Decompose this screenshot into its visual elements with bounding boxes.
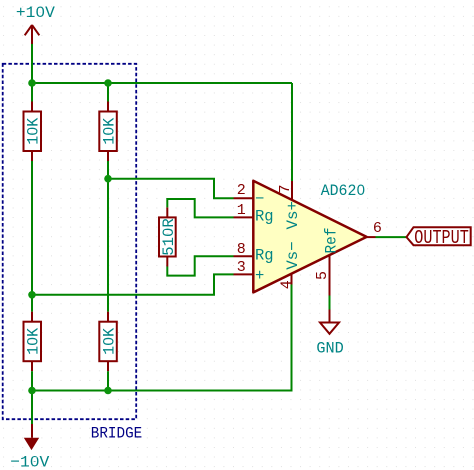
wire left column middle <box>31 161 33 312</box>
svg-text:510R: 510R <box>160 218 178 256</box>
resistor 10K top-right <box>99 102 118 162</box>
svg-text:2: 2 <box>237 182 246 199</box>
pin 4 stub (Vs-) <box>291 274 293 285</box>
svg-text:Ref: Ref <box>323 228 341 254</box>
wire 510R bottom to pin 8 <box>167 256 233 275</box>
svg-text:OUTPUT: OUTPUT <box>414 227 469 249</box>
svg-text:AD620: AD620 <box>321 182 366 200</box>
pin 3 stub <box>234 273 254 275</box>
svg-text:+10V: +10V <box>16 4 55 22</box>
svg-text:6: 6 <box>373 220 382 237</box>
junction (bottom rail / -10V) <box>28 387 36 395</box>
hierarchical label OUTPUT <box>407 227 471 249</box>
svg-text:BRIDGE: BRIDGE <box>91 424 142 442</box>
svg-text:GND: GND <box>316 340 343 358</box>
power flag -10V <box>25 424 39 449</box>
wire right column middle <box>107 161 109 312</box>
svg-text:3: 3 <box>237 259 246 276</box>
resistor 10K bottom-right <box>99 312 118 372</box>
junction (bridge left mid node) <box>28 291 36 299</box>
wire non-inverting input net (bridge left mid to pin 3) <box>32 274 234 294</box>
wire Vs+ vertical <box>291 83 293 181</box>
power flag +10V <box>25 25 40 44</box>
wire Ref to GND <box>329 296 331 310</box>
svg-text:Vs+: Vs+ <box>284 201 302 230</box>
svg-text:+: + <box>255 267 264 285</box>
svg-text:−: − <box>255 190 264 208</box>
pin 1 stub <box>234 216 254 218</box>
wire right column upper <box>107 83 109 102</box>
resistor 10K top-left <box>24 102 43 162</box>
pin 5 stub (Ref) <box>329 255 331 296</box>
wire left column upper <box>31 83 33 102</box>
resistor 10K bottom-left <box>24 312 43 372</box>
wire -10V stem <box>31 391 33 425</box>
svg-text:8: 8 <box>237 241 246 258</box>
svg-text:Vs−: Vs− <box>284 241 302 270</box>
pin 7 stub (Vs+) <box>291 181 293 201</box>
wire top rail <box>32 82 292 84</box>
svg-text:10K: 10K <box>25 117 43 144</box>
svg-text:5: 5 <box>314 271 331 280</box>
dashed bridge outline <box>3 64 137 419</box>
junction (bridge right mid node) <box>104 175 112 183</box>
wire inverting input net (bridge right mid to pin 2) <box>108 179 234 199</box>
op-amp AD620 body <box>253 181 366 293</box>
ground <box>320 310 339 334</box>
wire right column lower <box>107 371 109 390</box>
svg-text:10K: 10K <box>101 117 119 144</box>
svg-text:4: 4 <box>279 280 296 289</box>
svg-text:1: 1 <box>237 202 246 219</box>
svg-text:7: 7 <box>277 184 294 193</box>
pin 8 stub <box>234 255 254 257</box>
junction (top rail / R top-right) <box>104 79 112 87</box>
wire output <box>376 236 408 238</box>
wire 510R top to pin 1 <box>167 199 233 217</box>
svg-text:Rg: Rg <box>255 247 274 265</box>
junction (bottom rail / R bottom-right) <box>104 387 112 395</box>
wire +10V stem <box>31 44 33 83</box>
junction (top rail / +10V / R top-left) <box>28 79 36 87</box>
svg-text:−10V: −10V <box>10 453 50 470</box>
pin 2 stub <box>234 197 254 199</box>
wire bottom rail <box>32 285 292 391</box>
wire left column lower <box>31 371 33 390</box>
resistor 510R <box>159 207 178 266</box>
pin 6 stub (output) <box>367 236 376 238</box>
svg-text:Rg: Rg <box>255 208 274 226</box>
zero glyph patches (plain zeros like target) <box>29 8 362 461</box>
